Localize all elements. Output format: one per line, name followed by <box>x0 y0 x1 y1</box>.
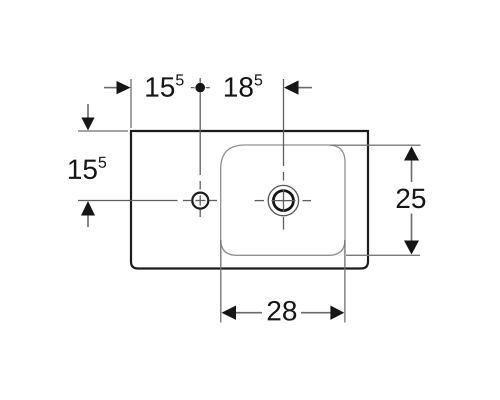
right dimension extension line bottom <box>346 254 420 256</box>
right dimension extension line top <box>330 144 421 146</box>
bottom dimension arrow right-pointing <box>330 306 344 320</box>
top dimension arrow left-pointing <box>284 80 299 94</box>
tap hole horizontal centerline <box>78 200 217 202</box>
label 25 right <box>397 188 426 208</box>
drain horizontal centerline <box>255 200 312 202</box>
left dimension arrow up-pointing <box>81 201 95 216</box>
left dimension line tails <box>87 104 89 227</box>
bottom dimension extension line left <box>220 240 222 323</box>
drain outer circle <box>268 185 298 215</box>
drain inner circle <box>273 191 293 211</box>
left dimension extension line (top edge extended) <box>78 130 128 132</box>
top dimension extension line left <box>130 79 132 128</box>
drain vertical centerline <box>283 79 285 230</box>
right dimension arrow down-pointing <box>404 241 419 255</box>
dimension hole marker dot <box>195 83 205 93</box>
top dimension arrow right-pointing <box>117 81 131 94</box>
label 28 bottom <box>268 301 297 321</box>
top dimension line <box>104 87 312 89</box>
label 15(5) left <box>69 157 106 179</box>
bottom dimension arrow left-pointing <box>222 306 237 320</box>
tap hole vertical centerline <box>199 93 201 218</box>
washbasin outer outline <box>131 131 368 269</box>
bottom dimension extension line right <box>344 240 346 323</box>
tap hole circle <box>192 193 208 209</box>
left dimension arrow down-pointing <box>81 118 94 131</box>
right dimension arrow up-pointing <box>404 146 419 160</box>
label 15(5) top <box>146 74 183 96</box>
bottom dimension line <box>236 312 331 314</box>
right dimension line <box>411 160 413 241</box>
basin bowl inner outline <box>221 145 345 255</box>
label 18(5) top <box>225 74 262 96</box>
dot cross ticks <box>191 78 210 88</box>
